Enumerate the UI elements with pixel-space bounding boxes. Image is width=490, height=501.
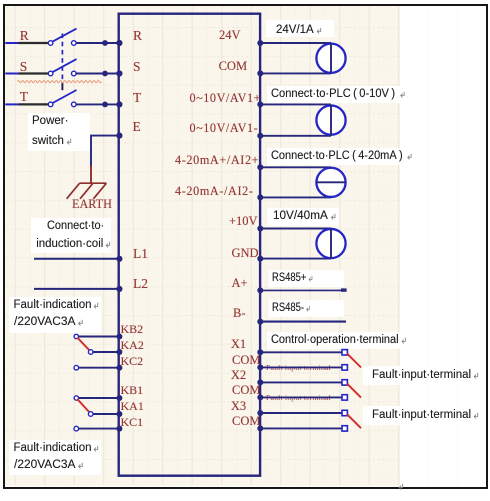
annotation: Power (32, 115, 68, 128)
annotation: RS485- (272, 302, 319, 315)
relay blade K1 (77, 399, 89, 412)
annotation: Connect to PLC(4-20mA) (271, 150, 419, 163)
wire 10V supply top (260, 228, 331, 230)
fault switch blade at X1 (347, 354, 361, 368)
wire 10V supply bottom (260, 258, 331, 260)
label L1 (133, 246, 148, 261)
label R (20, 28, 29, 43)
wire E to earth (91, 135, 118, 137)
terminal square COM1 (342, 365, 347, 370)
terminal square COM2 (342, 395, 347, 400)
pin E terminal dot (116, 133, 122, 139)
label X1 (231, 337, 246, 352)
text background strip (9, 297, 101, 333)
text background strip (267, 208, 339, 226)
label 24V (219, 28, 241, 43)
relay contact KA2 (88, 350, 93, 355)
relay contact KB2 (74, 334, 78, 338)
terminal square X1 (342, 350, 347, 355)
label COM (232, 414, 260, 429)
fault switch blade at X3 (347, 414, 361, 428)
node R junction (102, 40, 108, 46)
label KB2 (121, 322, 144, 337)
annotation: switch (32, 135, 72, 148)
wire R to box (76, 42, 118, 44)
label S (133, 59, 141, 74)
relay contact KC2 (74, 365, 79, 370)
text background strip (269, 300, 344, 317)
hidden deleted text under COM wire (266, 393, 331, 402)
label 0~10V/AV1- (190, 121, 259, 136)
relay contact KB1 (74, 396, 78, 400)
label X2 (231, 368, 246, 383)
label +10V (229, 214, 258, 229)
label COM (232, 383, 260, 398)
label EARTH (72, 197, 112, 212)
pin L2 terminal dot (116, 286, 122, 292)
annotation: Control operation terminal (271, 334, 413, 347)
load symbol PLC 0-10V (316, 106, 345, 135)
label COM (219, 59, 247, 74)
annotation: Connect to (47, 220, 107, 233)
pin L1 terminal dot (116, 256, 122, 262)
wire PLC 4-20mA bottom (260, 196, 331, 198)
annotation: Fault input terminal (372, 369, 479, 382)
label 4-20mA+/AI2+ (175, 153, 259, 168)
label KA2 (121, 338, 144, 353)
stray paragraph mark (398, 483, 404, 490)
label L2 (133, 276, 148, 291)
wire COM2 (260, 396, 342, 398)
wire X1 (260, 351, 342, 353)
label 4-20mA-/AI2- (175, 184, 254, 199)
text background strip (266, 20, 334, 37)
wire L1 induction coil (34, 258, 118, 260)
label T (20, 89, 28, 104)
text background strip (9, 440, 101, 475)
label KA1 (121, 399, 144, 414)
text background strip (31, 218, 111, 254)
text background strip (267, 86, 410, 103)
wire 24V supply bottom (260, 72, 331, 74)
fault switch blade at X2 (347, 384, 361, 398)
label R (133, 28, 142, 43)
controller box U1 (119, 14, 260, 476)
relay contact KA1 (88, 412, 93, 417)
wire R input lead (5, 42, 18, 44)
terminal square X2 (342, 380, 347, 385)
text background strip (28, 113, 90, 151)
wire X2 (260, 381, 342, 383)
annotation: Fault input terminal (372, 409, 479, 422)
text background strip (267, 332, 411, 349)
annotation: /220VAC3A (14, 316, 81, 329)
switch gang link (dashed) (61, 34, 63, 83)
label E (133, 119, 141, 134)
node T junction (102, 102, 108, 108)
wire S to box (76, 73, 118, 75)
annotation: induction coil (36, 238, 111, 251)
annotation: 24V/1A (276, 24, 322, 37)
switch ST pole (part of power switch) (48, 102, 53, 107)
label A+ (232, 276, 248, 291)
wire S input lead (5, 73, 18, 75)
wire PLC 0-10V bottom (260, 135, 331, 137)
ground EARTH symbol (67, 183, 107, 199)
text background strip (363, 406, 484, 425)
label S (20, 59, 28, 74)
wire L2 induction coil (34, 288, 118, 290)
spell-check squiggle (18, 81, 102, 83)
relay blade K2 (77, 338, 89, 351)
load symbol PLC 4-20mA (316, 168, 345, 197)
label T (133, 90, 141, 105)
label KB1 (121, 383, 144, 398)
label COM (232, 353, 260, 368)
pin R terminal dot (116, 40, 122, 46)
wire COM3 (260, 427, 342, 429)
text background strip (267, 148, 414, 165)
switch SS pole (part of power switch) (48, 71, 53, 76)
terminal square X3 (342, 410, 347, 415)
annotation: Fault indication (14, 442, 100, 455)
wire T input lead (5, 103, 18, 105)
wire T to box (76, 103, 118, 105)
label X3 (231, 399, 246, 414)
node S junction (102, 71, 108, 77)
pin S terminal dot (116, 70, 122, 76)
load symbol 10V supply (316, 229, 345, 258)
wire A+ RS485+ (260, 289, 341, 291)
wire PLC 0-10V top (260, 103, 331, 105)
annotation: 10V/40mA (273, 210, 335, 223)
wire X3 (260, 412, 342, 414)
wire B- RS485- (260, 321, 346, 323)
label KC1 (121, 415, 144, 430)
annotation: Connect to PLC(0-10V) (271, 88, 410, 101)
wire 24V supply top (260, 42, 331, 44)
pin T terminal dot (116, 101, 122, 107)
label GND (232, 246, 259, 261)
annotation: /220VAC3A (14, 459, 81, 472)
annotation: Fault indication (14, 299, 100, 312)
annotation: RS485+ (272, 272, 322, 285)
hidden deleted text under COM wire (266, 363, 331, 372)
label KC2 (121, 354, 144, 369)
text background strip (269, 270, 344, 287)
label 0~10V/AV1+ (190, 91, 262, 106)
wire PLC 4-20mA top (260, 166, 331, 168)
load symbol 24V supply (316, 44, 345, 73)
relay contact KC1 (74, 426, 79, 431)
label B- (233, 306, 246, 321)
wire COM1 (260, 366, 342, 368)
switch SR pole (part of power switch) (48, 41, 53, 46)
terminal square COM3 (342, 426, 347, 431)
text background strip (363, 366, 484, 385)
